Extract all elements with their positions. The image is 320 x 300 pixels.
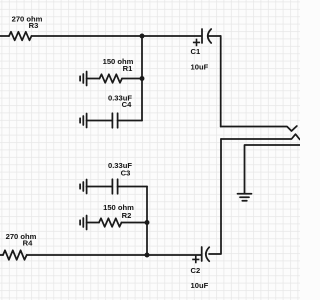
junction node: R2/vertical bus xyxy=(145,220,150,225)
ground (rotated, C4 input) xyxy=(80,114,87,128)
svg-text:10uF: 10uF xyxy=(191,63,209,72)
wire: C3 to vertical bus xyxy=(118,186,147,188)
ground (rotated, R2 input) xyxy=(80,216,87,230)
wire: R2 to vertical bus xyxy=(122,222,148,224)
svg-text:C2: C2 xyxy=(191,266,201,275)
svg-text:C3: C3 xyxy=(121,169,131,178)
wire: ground to R1 xyxy=(87,78,100,80)
svg-text:R3: R3 xyxy=(29,21,39,30)
junction node: R4/vertical bus xyxy=(145,253,150,258)
junction node: R1/vertical bus xyxy=(140,76,145,81)
wire: R4 line from left edge to C2 xyxy=(0,254,3,256)
capacitor C3 xyxy=(112,179,117,194)
wire: R1 to vertical bus xyxy=(122,78,142,80)
ground (rotated, C3 input) xyxy=(80,180,87,194)
wire: ground to C4 xyxy=(87,120,112,122)
ground (rotated, R1 input) xyxy=(80,72,87,86)
svg-text:C1: C1 xyxy=(191,47,201,56)
svg-text:R1: R1 xyxy=(123,64,133,73)
wire: vertical from C1 down xyxy=(220,36,222,127)
junction node: R3/vertical bus xyxy=(140,34,145,39)
capacitor C1 curved plate xyxy=(208,29,211,43)
wire: output corner to right edge xyxy=(245,145,301,193)
wire: R4 to C2 xyxy=(27,254,202,256)
svg-text:C4: C4 xyxy=(122,100,132,109)
capacitor C1 plate xyxy=(201,29,203,43)
capacitor C2 curved plate xyxy=(206,247,209,261)
ground (output) xyxy=(238,194,252,201)
wire: R3 to C1 xyxy=(32,35,202,37)
wire: R3 line from left edge to C1 xyxy=(0,35,9,37)
label: C2 plus xyxy=(192,256,199,264)
resistor R3 xyxy=(9,32,32,41)
wire: C4 to vertical bus xyxy=(118,120,142,122)
wire: vertical bus top xyxy=(141,36,143,121)
resistor R4 xyxy=(3,250,27,259)
label: C1 plus xyxy=(193,39,200,47)
resistor R1 xyxy=(100,74,123,83)
wire: ground to C3 xyxy=(87,186,112,188)
wire: to right edge with notch (top) xyxy=(221,126,297,131)
svg-text:R4: R4 xyxy=(23,239,33,248)
resistor R2 xyxy=(99,218,122,227)
wire: vertical bus bottom xyxy=(146,187,148,256)
svg-text:10uF: 10uF xyxy=(191,281,209,290)
wire: C1 to corner xyxy=(208,35,221,37)
svg-text:R2: R2 xyxy=(122,211,132,220)
wire: vertical down to C2 xyxy=(209,139,221,254)
capacitor C2 plate xyxy=(201,247,203,261)
wire: ground to R2 xyxy=(87,222,99,224)
wire: return from right edge with notch xyxy=(221,134,300,139)
capacitor C4 xyxy=(112,113,117,128)
